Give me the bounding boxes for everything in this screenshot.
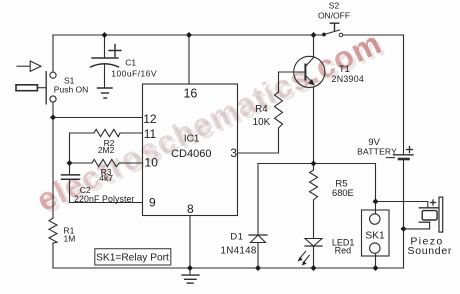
label box SK1=Relay Port [95, 249, 171, 265]
wire ground stub [189, 268, 191, 275]
svg-text:9: 9 [149, 196, 156, 210]
wire left drop to S1 [52, 35, 54, 72]
wire pin 10 to R3 [119, 162, 143, 164]
wire SK1 top lead [375, 202, 377, 214]
svg-text:T1: T1 [339, 64, 350, 74]
wire S1 bottom to node A [52, 102, 54, 117]
wire piezo minus lead [404, 222, 430, 229]
wire R4 top to T1 base [279, 72, 306, 92]
resistor R3 [92, 159, 119, 183]
svg-text:220nF Polyster: 220nF Polyster [74, 194, 135, 204]
svg-text:10K: 10K [253, 117, 271, 128]
ground (main, below pin 8) [182, 275, 199, 283]
node dot B (R2/R3/C2) [67, 160, 73, 166]
node dot D1/bottom rail [255, 265, 261, 271]
node dot C1/top rail [102, 32, 108, 38]
wire pin 8 to bottom rail [189, 216, 191, 269]
svg-text:2M2: 2M2 [98, 145, 115, 155]
diode D1 1N4148 [221, 232, 267, 257]
svg-text:S2: S2 [329, 1, 340, 11]
IC U1 CD4060 box [143, 84, 238, 216]
wire right rail upper (to battery) [403, 35, 405, 154]
node dot LED1/bottom rail [311, 265, 317, 271]
svg-text:10: 10 [145, 155, 159, 169]
wire bottom rail [53, 267, 404, 269]
svg-text:Sounder: Sounder [407, 245, 452, 257]
wire node A to pin 12 [53, 117, 143, 119]
svg-text:680E: 680E [332, 188, 354, 198]
svg-text:100uF/16V: 100uF/16V [111, 68, 157, 78]
wire D1 bottom lead [257, 243, 259, 269]
node dot S2 contact [322, 33, 326, 37]
wire R1 to bottom rail [52, 243, 54, 268]
wire C1 to ground [104, 65, 106, 89]
svg-text:D1: D1 [230, 232, 243, 243]
wire LED1 to bottom rail [313, 246, 315, 268]
svg-text:R4: R4 [255, 104, 268, 115]
wire C1 top lead [104, 35, 106, 58]
wire D1 top lead [257, 164, 259, 236]
node dot emitter/R5 [311, 161, 317, 167]
node dot collector/top rail [311, 32, 317, 38]
wire node B to C2 [69, 163, 71, 175]
resistor R4 [253, 92, 283, 128]
wire emitter node rail [258, 163, 376, 165]
node dot pin8/bottom rail [187, 265, 193, 271]
svg-text:Red: Red [335, 245, 352, 255]
node dot SK1/bottom rail [373, 265, 379, 271]
resistor R2 [94, 129, 120, 155]
wire R5 to LED1 [313, 200, 315, 239]
piezo sounder LS1 [407, 197, 452, 257]
svg-text:8: 8 [187, 202, 194, 216]
wire pin 16 to top rail [188, 35, 190, 84]
svg-text:CD4060: CD4060 [171, 148, 211, 160]
LED1 Red [298, 237, 355, 265]
wire node C drop to SK1 [375, 164, 377, 202]
transistor Q1 T1 2N3904 [294, 56, 364, 87]
node dot A (S1/pin12/left rail) [50, 114, 56, 120]
wire top rail [53, 34, 324, 36]
capacitor C2 [62, 175, 135, 204]
wire R3 to node B [70, 162, 93, 164]
svg-text:Push ON: Push ON [54, 84, 89, 94]
resistor R1 [49, 218, 75, 243]
wire top rail right of S2 [343, 34, 404, 36]
wire T1 emitter down [313, 87, 315, 164]
svg-text:12: 12 [143, 112, 157, 126]
svg-text:16: 16 [183, 86, 197, 100]
svg-text:BATTERY: BATTERY [357, 147, 397, 157]
svg-text:1N4148: 1N4148 [221, 245, 257, 256]
svg-text:IC1: IC1 [184, 134, 200, 145]
connector SK1 [362, 210, 390, 256]
svg-text:4k7: 4k7 [99, 173, 113, 183]
svg-text:2N3904: 2N3904 [332, 74, 365, 84]
wire C2 bottom to pin 9 [70, 180, 143, 203]
svg-text:SK1: SK1 [365, 230, 385, 241]
wire T1 collector to top rail [313, 35, 315, 57]
svg-text:11: 11 [144, 127, 157, 141]
node dot pin16/top rail [186, 32, 192, 38]
resistor R5 [310, 170, 354, 200]
ground (C1) [98, 88, 113, 98]
svg-text:SK1=Relay Port: SK1=Relay Port [96, 252, 169, 263]
node dot piezo minus / right rail [401, 226, 407, 232]
svg-text:3: 3 [230, 146, 237, 160]
switch S2 [318, 1, 350, 37]
wire pin 3 to R4 [238, 128, 279, 153]
capacitor C1 [91, 45, 157, 79]
node dot SK1 top / piezo plus [373, 199, 379, 205]
wire pin 11 to R2 [120, 132, 143, 134]
wire R5 top lead [313, 164, 315, 171]
wire right rail lower (battery to bottom) [403, 160, 405, 269]
wire left rail node A to R1 [52, 117, 54, 218]
svg-text:1M: 1M [64, 233, 76, 243]
wire piezo plus lead [376, 202, 428, 208]
wire SK1 bottom lead [375, 253, 377, 268]
svg-text:ON/OFF: ON/OFF [318, 11, 350, 21]
svg-text:C1: C1 [125, 57, 136, 67]
wire R2 left corner down to node B [70, 133, 95, 163]
pushbutton S1 [16, 61, 88, 104]
battery B1 9V [357, 137, 413, 159]
